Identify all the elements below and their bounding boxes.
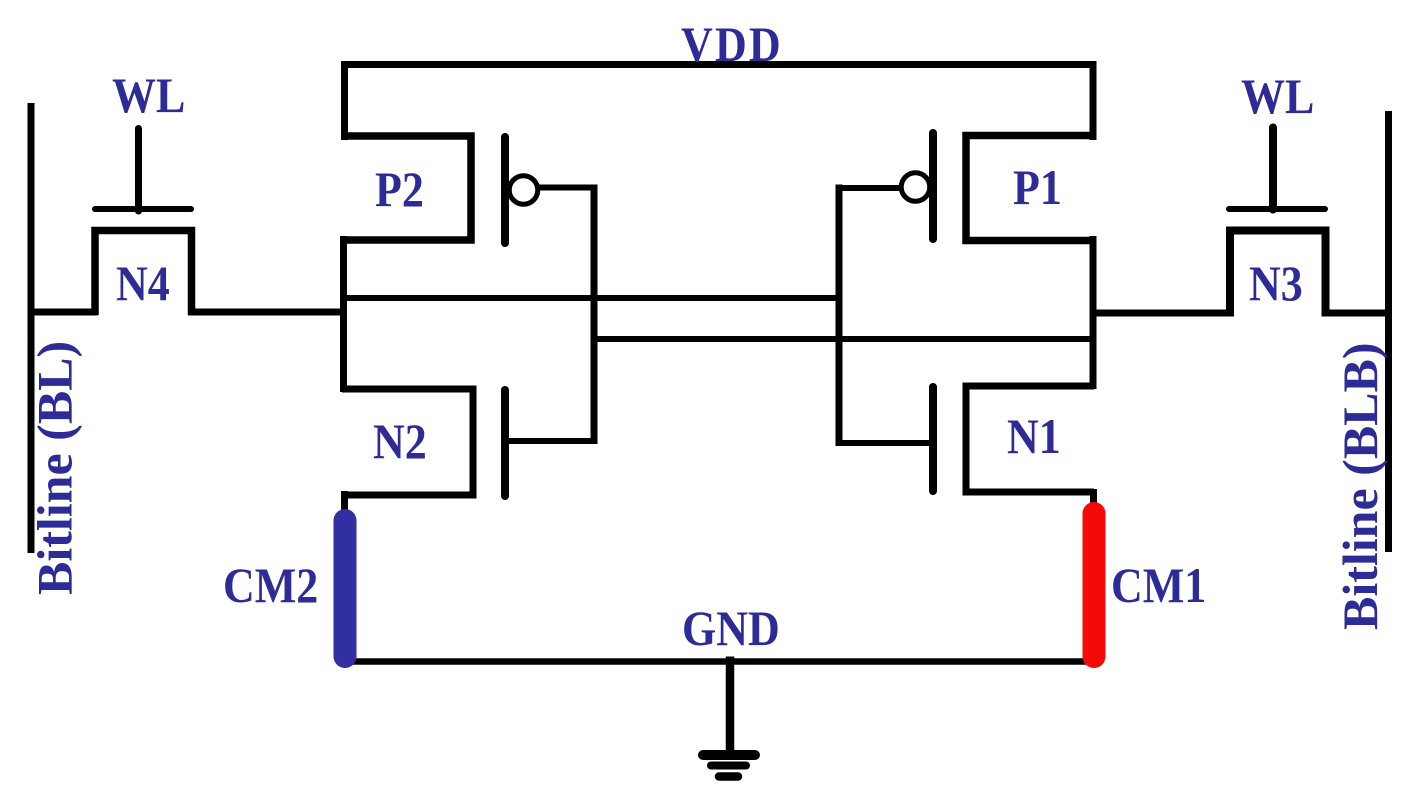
transistor P2 gate plate <box>501 137 509 243</box>
transistor N2 source-drain staple <box>342 389 473 495</box>
svg-text:N3: N3 <box>1249 256 1303 311</box>
svg-text:WL: WL <box>1241 69 1314 124</box>
capacitor CM1 (red bar) <box>1083 514 1106 657</box>
wire N3 to BLB <box>1322 310 1392 317</box>
wire cross-couple bottom (left gate to right node) <box>591 336 1097 342</box>
wire right inverter gate vertical <box>836 185 843 447</box>
wire right output node vertical <box>1090 236 1097 389</box>
wire right node stub to CM1 <box>1090 489 1097 508</box>
transistor P1 gate plate <box>929 133 937 239</box>
transistor N2 gate plate <box>501 390 509 496</box>
svg-text:N1: N1 <box>1007 409 1061 464</box>
wire right node to N3 <box>1090 310 1234 317</box>
bitline BLB vertical <box>1385 111 1392 552</box>
wire left output node vertical <box>340 236 347 392</box>
wire WL stem right <box>1269 128 1277 210</box>
wire GND rail <box>345 658 1095 665</box>
transistor N3 gate bar <box>1229 206 1325 212</box>
capacitor CM2 (blue bar) <box>334 521 357 657</box>
wire BL to N4 <box>28 309 98 316</box>
transistor N1 gate plate <box>929 387 937 491</box>
svg-text:CM2: CM2 <box>223 558 318 613</box>
transistor N3 channel staple <box>1230 231 1326 317</box>
ground stem <box>726 657 735 757</box>
ground bar 3 <box>719 772 738 781</box>
ground bar 1 <box>703 750 755 760</box>
wire VDD rail <box>345 65 1094 141</box>
svg-text:P2: P2 <box>375 162 424 217</box>
wire left inverter gate vertical (node QB gate line) <box>591 185 598 445</box>
svg-text:N4: N4 <box>116 256 170 311</box>
svg-text:Bitline (BL): Bitline (BL) <box>27 341 83 595</box>
svg-text:N2: N2 <box>373 414 427 469</box>
wire P1 bubble to gate line <box>836 185 903 191</box>
svg-text:VDD: VDD <box>681 17 783 72</box>
transistor P1 source-drain staple <box>966 136 1093 241</box>
ground bar 2 <box>711 762 746 770</box>
transistor N4 gate bar <box>95 206 191 212</box>
svg-text:P1: P1 <box>1013 160 1062 215</box>
svg-text:GND: GND <box>682 601 780 656</box>
svg-text:WL: WL <box>112 68 185 123</box>
wire N1 gate <box>836 440 930 446</box>
svg-text:CM1: CM1 <box>1111 558 1206 613</box>
wire N4 to left node <box>188 309 346 316</box>
transistor P2 source-drain staple <box>344 136 471 240</box>
wire left node stub to CM2 <box>341 491 348 512</box>
wire WL stem left <box>135 129 142 212</box>
bitline BL vertical <box>28 103 35 553</box>
transistor P2 bubble <box>509 176 538 205</box>
wire cross-couple top (left node to right gate) <box>340 295 843 301</box>
svg-text:Bitline (BLB): Bitline (BLB) <box>1332 342 1388 630</box>
transistor P1 bubble <box>901 173 930 202</box>
wire N2 gate <box>509 438 598 444</box>
wire P2 bubble to gate line <box>537 185 598 191</box>
transistor N4 channel staple <box>95 231 192 316</box>
transistor N1 source-drain staple <box>966 386 1094 492</box>
